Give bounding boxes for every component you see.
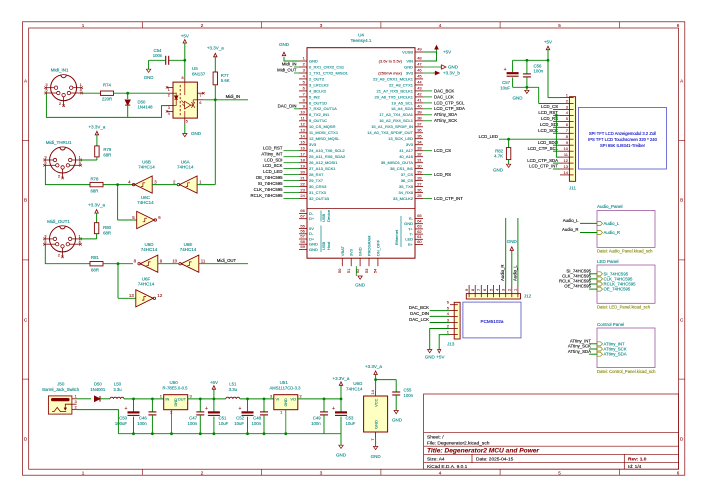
svg-text:45: 45 <box>417 74 422 79</box>
svg-text:Audio_L: Audio_L <box>563 218 579 223</box>
svg-text:Audio_Panel: Audio_Panel <box>597 204 623 209</box>
svg-text:LCD_SCK: LCD_SCK <box>263 163 283 168</box>
svg-text:49: 49 <box>417 47 422 52</box>
svg-text:21_A7_RX5_BCLK1: 21_A7_RX5_BCLK1 <box>377 88 414 93</box>
svg-text:16: 16 <box>300 145 305 150</box>
svg-text:GND: GND <box>174 398 178 407</box>
svg-text:52: 52 <box>355 268 360 273</box>
svg-text:Datei: LED_Panel.kicad_sch: Datei: LED_Panel.kicad_sch <box>597 305 651 310</box>
svg-text:C52: C52 <box>236 416 244 421</box>
svg-text:3: 3 <box>168 106 170 110</box>
svg-text:2: 2 <box>201 471 204 476</box>
svg-text:U4: U4 <box>358 33 364 38</box>
svg-text:11: 11 <box>201 259 206 264</box>
svg-text:3_LRCLK2: 3_LRCLK2 <box>309 82 329 87</box>
svg-text:Host: Host <box>326 241 331 250</box>
svg-text:D+: D+ <box>309 216 315 221</box>
svg-text:43: 43 <box>417 86 422 91</box>
svg-text:C47: C47 <box>189 416 197 421</box>
svg-text:100n: 100n <box>404 393 414 398</box>
svg-text:33: 33 <box>417 145 422 150</box>
svg-text:LCD_SDI: LCD_SDI <box>540 122 558 127</box>
svg-text:DAC_DIN: DAC_DIN <box>410 311 429 316</box>
svg-text:6: 6 <box>199 101 201 105</box>
svg-text:VCC: VCC <box>374 398 379 407</box>
svg-text:LCD_LED: LCD_LED <box>479 134 498 139</box>
svg-text:LCD_CTP_INT: LCD_CTP_INT <box>529 164 558 169</box>
svg-text:(3.6v to 5.5v): (3.6v to 5.5v) <box>379 58 403 63</box>
svg-text:22_A8_CTX1: 22_A8_CTX1 <box>389 82 414 87</box>
svg-text:OE_74HC595: OE_74HC595 <box>256 175 283 180</box>
svg-text:OE_74HC595: OE_74HC595 <box>604 287 631 292</box>
svg-text:ATtiny_SCK: ATtiny_SCK <box>434 118 457 123</box>
svg-text:PROGRAM: PROGRAM <box>367 236 372 257</box>
svg-text:B: B <box>680 198 683 203</box>
svg-text:5: 5 <box>558 23 561 28</box>
svg-text:13: 13 <box>564 164 569 169</box>
svg-text:IPS TFT LCD Touchscreen 320 *: IPS TFT LCD Touchscreen 320 * 240 <box>588 137 658 142</box>
svg-text:Audio_R: Audio_R <box>562 227 578 232</box>
svg-text:16_A2_RX4_SCL1: 16_A2_RX4_SCL1 <box>379 118 414 123</box>
svg-text:GND: GND <box>425 355 436 360</box>
svg-text:10uF: 10uF <box>234 421 244 426</box>
svg-text:GND: GND <box>355 283 365 288</box>
svg-text:C50: C50 <box>119 416 127 421</box>
svg-text:1: 1 <box>82 471 85 476</box>
svg-text:13: 13 <box>129 293 134 298</box>
svg-text:ATtiny_SDA: ATtiny_SDA <box>568 349 591 354</box>
svg-text:C56: C56 <box>534 63 542 68</box>
svg-text:DAC_LCK: DAC_LCK <box>409 317 429 322</box>
svg-text:VI: VI <box>276 397 280 402</box>
svg-text:LCD_RS: LCD_RS <box>434 172 451 177</box>
svg-text:3: 3 <box>320 23 323 28</box>
svg-text:32_OUT1B: 32_OUT1B <box>309 196 329 201</box>
svg-text:VUSB: VUSB <box>402 49 413 54</box>
svg-text:GND: GND <box>144 75 154 80</box>
svg-text:VIN: VIN <box>406 58 413 63</box>
svg-text:LCD_CTP_SDA: LCD_CTP_SDA <box>527 158 558 163</box>
svg-text:3.3u: 3.3u <box>113 387 122 392</box>
svg-text:Device: Device <box>326 209 331 222</box>
svg-text:+3.3V_a: +3.3V_a <box>88 203 105 208</box>
svg-text:1_TX1_CTX2_MISO1: 1_TX1_CTX2_MISO1 <box>309 70 349 75</box>
svg-text:VO: VO <box>290 397 296 402</box>
svg-text:12: 12 <box>157 293 162 298</box>
svg-text:3V3: 3V3 <box>349 248 354 256</box>
svg-text:Sheet: /: Sheet: / <box>427 434 444 440</box>
svg-text:GND: GND <box>448 65 459 70</box>
svg-text:GND: GND <box>392 418 403 423</box>
svg-text:1: 1 <box>168 88 170 92</box>
svg-text:4: 4 <box>439 23 442 28</box>
svg-text:26_A12_MOSI1: 26_A12_MOSI1 <box>309 160 338 165</box>
svg-text:100n: 100n <box>187 421 197 426</box>
svg-text:GND: GND <box>404 64 413 69</box>
svg-text:5_IN2: 5_IN2 <box>309 94 320 99</box>
svg-text:74HC14: 74HC14 <box>141 247 158 252</box>
svg-text:32: 32 <box>417 151 422 156</box>
svg-text:23_A9_CRX1_MCLK1: 23_A9_CRX1_MCLK1 <box>373 76 414 81</box>
svg-text:8: 8 <box>181 76 183 80</box>
svg-text:GND: GND <box>507 239 518 244</box>
svg-text:7_RX2_OUT1A: 7_RX2_OUT1A <box>309 106 337 111</box>
svg-text:74HC14: 74HC14 <box>346 386 363 391</box>
svg-text:GND: GND <box>279 42 290 47</box>
svg-text:DAC_BCK: DAC_BCK <box>434 88 454 93</box>
svg-text:41: 41 <box>417 98 422 103</box>
svg-text:LCD_CTP_SDA: LCD_CTP_SDA <box>434 106 465 111</box>
svg-text:Midi_IN: Midi_IN <box>282 62 297 67</box>
svg-text:LCD_CS: LCD_CS <box>434 148 451 153</box>
svg-text:35_TX8: 35_TX8 <box>399 184 414 189</box>
svg-text:44: 44 <box>417 80 422 85</box>
svg-text:28_RX7: 28_RX7 <box>309 172 324 177</box>
svg-text:5: 5 <box>186 120 188 124</box>
svg-text:File: Degenerator2.kicad_sch: File: Degenerator2.kicad_sch <box>427 441 490 447</box>
svg-text:60: 60 <box>417 239 422 244</box>
svg-text:4_BCLK2: 4_BCLK2 <box>309 88 327 93</box>
svg-text:U5: U5 <box>192 66 198 71</box>
svg-text:7: 7 <box>199 94 201 98</box>
svg-text:22: 22 <box>300 181 305 186</box>
svg-text:25_A11_RX6_SDA2: 25_A11_RX6_SDA2 <box>309 154 346 159</box>
svg-text:10_CS_MQSR: 10_CS_MQSR <box>309 124 336 129</box>
svg-text:100n: 100n <box>311 421 321 426</box>
svg-text:27: 27 <box>417 181 422 186</box>
svg-text:GND: GND <box>309 247 318 252</box>
svg-text:30: 30 <box>417 163 422 168</box>
svg-text:74HC14: 74HC14 <box>180 247 197 252</box>
svg-text:LCD_CTP_INT: LCD_CTP_INT <box>434 196 463 201</box>
svg-text:27_A13_SCK1: 27_A13_SCK1 <box>309 166 336 171</box>
svg-text:R82: R82 <box>495 148 503 153</box>
svg-text:OUT: OUT <box>178 397 187 402</box>
svg-text:20: 20 <box>300 169 305 174</box>
svg-text:LED Panel: LED Panel <box>597 259 619 264</box>
svg-text:6_OUT1D: 6_OUT1D <box>309 100 327 105</box>
svg-text:50: 50 <box>337 268 342 273</box>
svg-text:LCD_SCK: LCD_SCK <box>538 128 558 133</box>
svg-text:GND: GND <box>336 452 347 457</box>
svg-text:38: 38 <box>417 116 422 121</box>
svg-text:68R: 68R <box>91 267 99 272</box>
svg-text:9_OUT1C: 9_OUT1C <box>309 118 327 123</box>
svg-text:10: 10 <box>300 110 305 115</box>
svg-text:GND: GND <box>493 168 504 173</box>
svg-text:53: 53 <box>364 268 369 273</box>
svg-text:R78: R78 <box>90 176 98 181</box>
svg-text:+5V: +5V <box>443 50 451 55</box>
svg-text:GND: GND <box>284 398 288 407</box>
svg-text:28: 28 <box>417 175 422 180</box>
svg-text:+: + <box>332 406 335 412</box>
svg-text:LCD_RST: LCD_RST <box>538 110 558 115</box>
svg-text:10: 10 <box>564 146 569 151</box>
svg-text:L50: L50 <box>114 382 122 387</box>
svg-text:J11: J11 <box>569 185 576 190</box>
svg-text:1: 1 <box>82 23 85 28</box>
svg-text:6: 6 <box>677 23 680 28</box>
svg-text:SPI 65K ILI9341-Treiber: SPI 65K ILI9341-Treiber <box>600 143 646 148</box>
svg-text:Title: Degenerator2 MCU and Po: Title: Degenerator2 MCU and Power <box>427 448 539 455</box>
svg-text:+5V: +5V <box>544 40 552 45</box>
svg-text:Midi_THRU1: Midi_THRU1 <box>46 140 72 145</box>
svg-text:C55: C55 <box>404 387 412 392</box>
svg-text:C57: C57 <box>502 80 510 85</box>
svg-text:6N137: 6N137 <box>192 71 206 76</box>
svg-text:2: 2 <box>168 94 170 98</box>
svg-text:DAC_BCK: DAC_BCK <box>409 305 429 310</box>
svg-text:3V3: 3V3 <box>309 142 317 147</box>
svg-text:23: 23 <box>300 187 305 192</box>
svg-text:21: 21 <box>300 175 305 180</box>
svg-text:2_OUT2: 2_OUT2 <box>309 76 325 81</box>
svg-text:J12: J12 <box>524 293 532 298</box>
svg-text:51: 51 <box>346 268 351 273</box>
svg-text:C51: C51 <box>219 416 227 421</box>
svg-text:42: 42 <box>417 92 422 97</box>
svg-text:19: 19 <box>300 163 305 168</box>
svg-text:12: 12 <box>564 158 569 163</box>
svg-text:Teensy4.1: Teensy4.1 <box>351 38 372 43</box>
svg-text:DAC_LCK: DAC_LCK <box>434 94 454 99</box>
svg-text:100n: 100n <box>534 69 544 74</box>
svg-text:+5V: +5V <box>210 380 218 385</box>
svg-text:33_MCLK2: 33_MCLK2 <box>393 196 414 201</box>
svg-text:37: 37 <box>417 122 422 127</box>
svg-text:Midi_OUT: Midi_OUT <box>217 258 237 263</box>
svg-text:+3.3V_b: +3.3V_b <box>443 71 460 76</box>
svg-text:14: 14 <box>370 389 375 394</box>
svg-text:ATtiny_SDA: ATtiny_SDA <box>434 112 457 117</box>
svg-text:14: 14 <box>300 133 305 138</box>
svg-text:3V3: 3V3 <box>406 70 414 75</box>
svg-text:J13: J13 <box>447 342 455 347</box>
svg-text:Midi_IN: Midi_IN <box>226 94 241 99</box>
svg-text:13_SCK_LED: 13_SCK_LED <box>388 136 413 141</box>
svg-text:+3.3V_a: +3.3V_a <box>333 376 350 381</box>
svg-text:J50: J50 <box>57 382 65 387</box>
svg-text:47: 47 <box>417 62 422 67</box>
svg-text:26: 26 <box>417 187 422 192</box>
svg-text:U50: U50 <box>169 380 178 385</box>
svg-text:R81: R81 <box>91 255 99 260</box>
svg-text:+: + <box>504 67 507 73</box>
svg-text:GND: GND <box>358 247 363 256</box>
svg-text:29_TX7: 29_TX7 <box>309 178 324 183</box>
svg-text:41_A17: 41_A17 <box>399 148 414 153</box>
svg-text:68R: 68R <box>90 188 98 193</box>
svg-text:AMS1117CD-3.3: AMS1117CD-3.3 <box>269 385 301 390</box>
svg-text:100n: 100n <box>251 421 261 426</box>
svg-text:LCD_SDI: LCD_SDI <box>264 157 282 162</box>
svg-text:2: 2 <box>201 23 204 28</box>
svg-text:VBAT: VBAT <box>340 245 345 256</box>
svg-text:40_A16: 40_A16 <box>399 154 414 159</box>
svg-text:25: 25 <box>417 193 422 198</box>
svg-text:29: 29 <box>417 169 422 174</box>
svg-text:3.3u: 3.3u <box>229 387 238 392</box>
svg-text:31_CTX3: 31_CTX3 <box>309 190 327 195</box>
svg-text:ATtiny_INT: ATtiny_INT <box>261 151 283 156</box>
svg-text:Size: A4: Size: A4 <box>427 457 445 463</box>
svg-text:17_A3_TX4_SDA1: 17_A3_TX4_SDA1 <box>379 112 414 117</box>
svg-text:18: 18 <box>300 157 305 162</box>
svg-text:34_RX8: 34_RX8 <box>399 190 414 195</box>
svg-text:Date: 2025-04-15: Date: 2025-04-15 <box>476 457 514 463</box>
svg-text:SI_74HC595: SI_74HC595 <box>258 181 283 186</box>
svg-text:LCD_RST: LCD_RST <box>263 145 283 150</box>
svg-text:67: 67 <box>300 213 305 218</box>
svg-text:+5V: +5V <box>436 355 444 360</box>
svg-text:24: 24 <box>300 193 305 198</box>
svg-text:Audio_R: Audio_R <box>604 230 620 235</box>
svg-text:6: 6 <box>677 471 680 476</box>
svg-text:3V3: 3V3 <box>406 142 414 147</box>
svg-text:GND: GND <box>191 131 202 136</box>
svg-text:+3.3V_a: +3.3V_a <box>365 364 382 369</box>
svg-text:220R: 220R <box>102 97 112 102</box>
svg-text:19_A5_SCL: 19_A5_SCL <box>391 100 413 105</box>
svg-text:8_TX2_IN1: 8_TX2_IN1 <box>309 112 330 117</box>
svg-text:CLK_74HC595: CLK_74HC595 <box>254 187 284 192</box>
svg-text:15_A1_RX3_SPDIF_IN: 15_A1_RX3_SPDIF_IN <box>371 124 413 129</box>
svg-text:R79: R79 <box>103 147 111 152</box>
svg-text:B: B <box>24 198 27 203</box>
svg-text:39: 39 <box>417 110 422 115</box>
svg-text:36: 36 <box>417 128 422 133</box>
svg-text:39_MISO1_OUTA: 39_MISO1_OUTA <box>381 160 413 165</box>
svg-text:4: 4 <box>168 112 170 116</box>
svg-text:U51: U51 <box>280 380 289 385</box>
svg-text:20_A6_TX5_LRCLK1: 20_A6_TX5_LRCLK1 <box>375 94 414 99</box>
svg-text:C46: C46 <box>139 416 147 421</box>
svg-text:38_CS1_IN1: 38_CS1_IN1 <box>390 166 414 171</box>
svg-text:17: 17 <box>300 151 305 156</box>
svg-text:R77: R77 <box>221 73 229 78</box>
svg-text:10uF: 10uF <box>346 421 356 426</box>
svg-text:+5V: +5V <box>181 33 189 38</box>
svg-text:0_RX1_CRX2_CS1: 0_RX1_CRX2_CS1 <box>309 64 345 69</box>
svg-text:Midi_IN1: Midi_IN1 <box>51 68 69 73</box>
svg-text:46: 46 <box>417 68 422 73</box>
svg-text:Rev: 1.0: Rev: 1.0 <box>628 457 647 463</box>
svg-text:48: 48 <box>417 56 422 61</box>
svg-text:L51: L51 <box>229 382 237 387</box>
svg-text:Id: 1/4: Id: 1/4 <box>628 464 642 470</box>
svg-text:LCD_CTP_SCL: LCD_CTP_SCL <box>434 100 465 105</box>
svg-text:40: 40 <box>417 104 422 109</box>
svg-text:5: 5 <box>558 471 561 476</box>
svg-text:3: 3 <box>320 471 323 476</box>
svg-text:DAC_DIN: DAC_DIN <box>278 103 297 108</box>
svg-text:R74: R74 <box>103 82 111 87</box>
svg-text:D50: D50 <box>138 99 146 104</box>
svg-text:5.6K: 5.6K <box>221 78 230 83</box>
svg-text:100uF: 100uF <box>115 421 128 426</box>
svg-text:18_A4_SDA: 18_A4_SDA <box>391 106 413 111</box>
svg-text:Ethernet: Ethernet <box>394 229 399 245</box>
svg-text:IN: IN <box>165 397 169 402</box>
svg-text:74HC14: 74HC14 <box>137 200 154 205</box>
svg-text:Barrel_Jack_Switch: Barrel_Jack_Switch <box>42 387 79 392</box>
svg-text:C49: C49 <box>313 416 321 421</box>
svg-text:LCD_CS: LCD_CS <box>541 104 558 109</box>
svg-text:31: 31 <box>417 157 422 162</box>
svg-text:74HC14: 74HC14 <box>138 281 155 286</box>
svg-text:24_A10_TX6_SCL2: 24_A10_TX6_SCL2 <box>309 148 345 153</box>
svg-text:ON_OFF: ON_OFF <box>375 239 380 256</box>
svg-text:(250mA max): (250mA max) <box>378 70 402 75</box>
svg-text:U6G: U6G <box>353 381 363 386</box>
svg-text:+: + <box>125 406 128 412</box>
svg-text:RCLK_74HC595: RCLK_74HC595 <box>250 193 283 198</box>
svg-text:GND: GND <box>513 96 524 101</box>
svg-text:+: + <box>205 406 208 412</box>
svg-text:10uF: 10uF <box>500 86 510 91</box>
svg-text:12_MISO_MQSL: 12_MISO_MQSL <box>309 136 340 141</box>
svg-text:Midi_OUT1: Midi_OUT1 <box>47 219 70 224</box>
svg-text:KiCad E.D.A. 9.0.1: KiCad E.D.A. 9.0.1 <box>427 464 468 470</box>
svg-text:68R: 68R <box>103 153 111 158</box>
svg-text:C53: C53 <box>346 416 354 421</box>
svg-text:1N4148: 1N4148 <box>138 105 154 110</box>
svg-text:R80: R80 <box>103 225 111 230</box>
svg-text:59: 59 <box>300 244 305 249</box>
svg-text:R+: R+ <box>408 242 414 247</box>
svg-text:Midi_OUT: Midi_OUT <box>277 68 297 73</box>
svg-text:13: 13 <box>300 128 305 133</box>
svg-text:SPI TFT LCD Anzeigemodul 3.2 Z: SPI TFT LCD Anzeigemodul 3.2 Zoll <box>589 131 656 136</box>
svg-text:100n: 100n <box>137 421 147 426</box>
svg-text:1N4001: 1N4001 <box>90 387 106 392</box>
svg-text:10: 10 <box>172 259 177 264</box>
svg-text:ATtiny_SDA: ATtiny_SDA <box>604 352 627 357</box>
svg-text:37_CS: 37_CS <box>401 172 414 177</box>
svg-text:34: 34 <box>417 139 422 144</box>
svg-text:10uF: 10uF <box>219 421 229 426</box>
svg-text:Audio_R: Audio_R <box>500 265 505 281</box>
svg-text:68R: 68R <box>103 230 111 235</box>
svg-text:R-78E5.0-0.5: R-78E5.0-0.5 <box>163 385 189 390</box>
svg-text:11_MOSI_CTX1: 11_MOSI_CTX1 <box>309 130 339 135</box>
svg-text:C48: C48 <box>253 416 261 421</box>
svg-text:+3.3V_a: +3.3V_a <box>207 45 224 50</box>
svg-text:30_CRX3: 30_CRX3 <box>309 184 327 189</box>
svg-text:54: 54 <box>373 268 378 273</box>
svg-text:36_CS: 36_CS <box>401 178 414 183</box>
svg-text:C54: C54 <box>154 48 162 53</box>
svg-text:Audio_L: Audio_L <box>512 265 517 281</box>
svg-text:OE_74HC595: OE_74HC595 <box>564 284 591 289</box>
svg-text:Datei: Audio_Panel.kicad_sch: Datei: Audio_Panel.kicad_sch <box>597 249 653 254</box>
svg-text:PCM5102a: PCM5102a <box>481 319 504 324</box>
svg-text:+: + <box>239 406 242 412</box>
svg-text:14_A0_TX3_SPDIF_OUT: 14_A0_TX3_SPDIF_OUT <box>367 130 413 135</box>
svg-text:Audio_L: Audio_L <box>604 221 620 226</box>
svg-text:LCD_SDO: LCD_SDO <box>538 140 559 145</box>
svg-text:GND: GND <box>309 58 318 63</box>
svg-text:LCD_LED: LCD_LED <box>263 169 282 174</box>
svg-text:100n: 100n <box>153 53 163 58</box>
svg-text:12: 12 <box>300 122 305 127</box>
svg-text:LCD_RS: LCD_RS <box>541 116 558 121</box>
svg-text:+3.3V_a: +3.3V_a <box>88 125 105 130</box>
svg-text:74HC14: 74HC14 <box>177 164 194 169</box>
svg-text:14: 14 <box>564 170 569 175</box>
svg-text:4: 4 <box>439 471 442 476</box>
